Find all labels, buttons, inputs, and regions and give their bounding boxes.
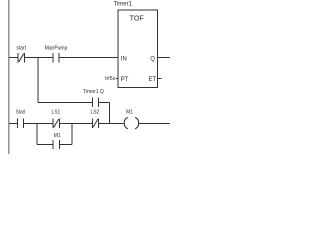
svg-text:ManPump: ManPump [45,45,68,51]
svg-text:PT: PT [121,77,129,83]
svg-text:t#5s: t#5s [105,76,116,82]
svg-text:Timer1 Q: Timer1 Q [83,89,104,95]
svg-text:TOF: TOF [130,13,145,22]
svg-text:M1: M1 [126,110,133,116]
svg-text:Timer1: Timer1 [114,1,133,7]
svg-text:IN: IN [121,56,127,62]
svg-text:Q: Q [150,56,155,62]
svg-text:LS2: LS2 [90,110,99,116]
svg-text:start: start [16,45,26,51]
svg-text:ET: ET [149,77,157,83]
svg-text:M1: M1 [54,133,61,139]
svg-text:LS1: LS1 [51,110,60,116]
svg-text:Start: Start [16,110,26,116]
